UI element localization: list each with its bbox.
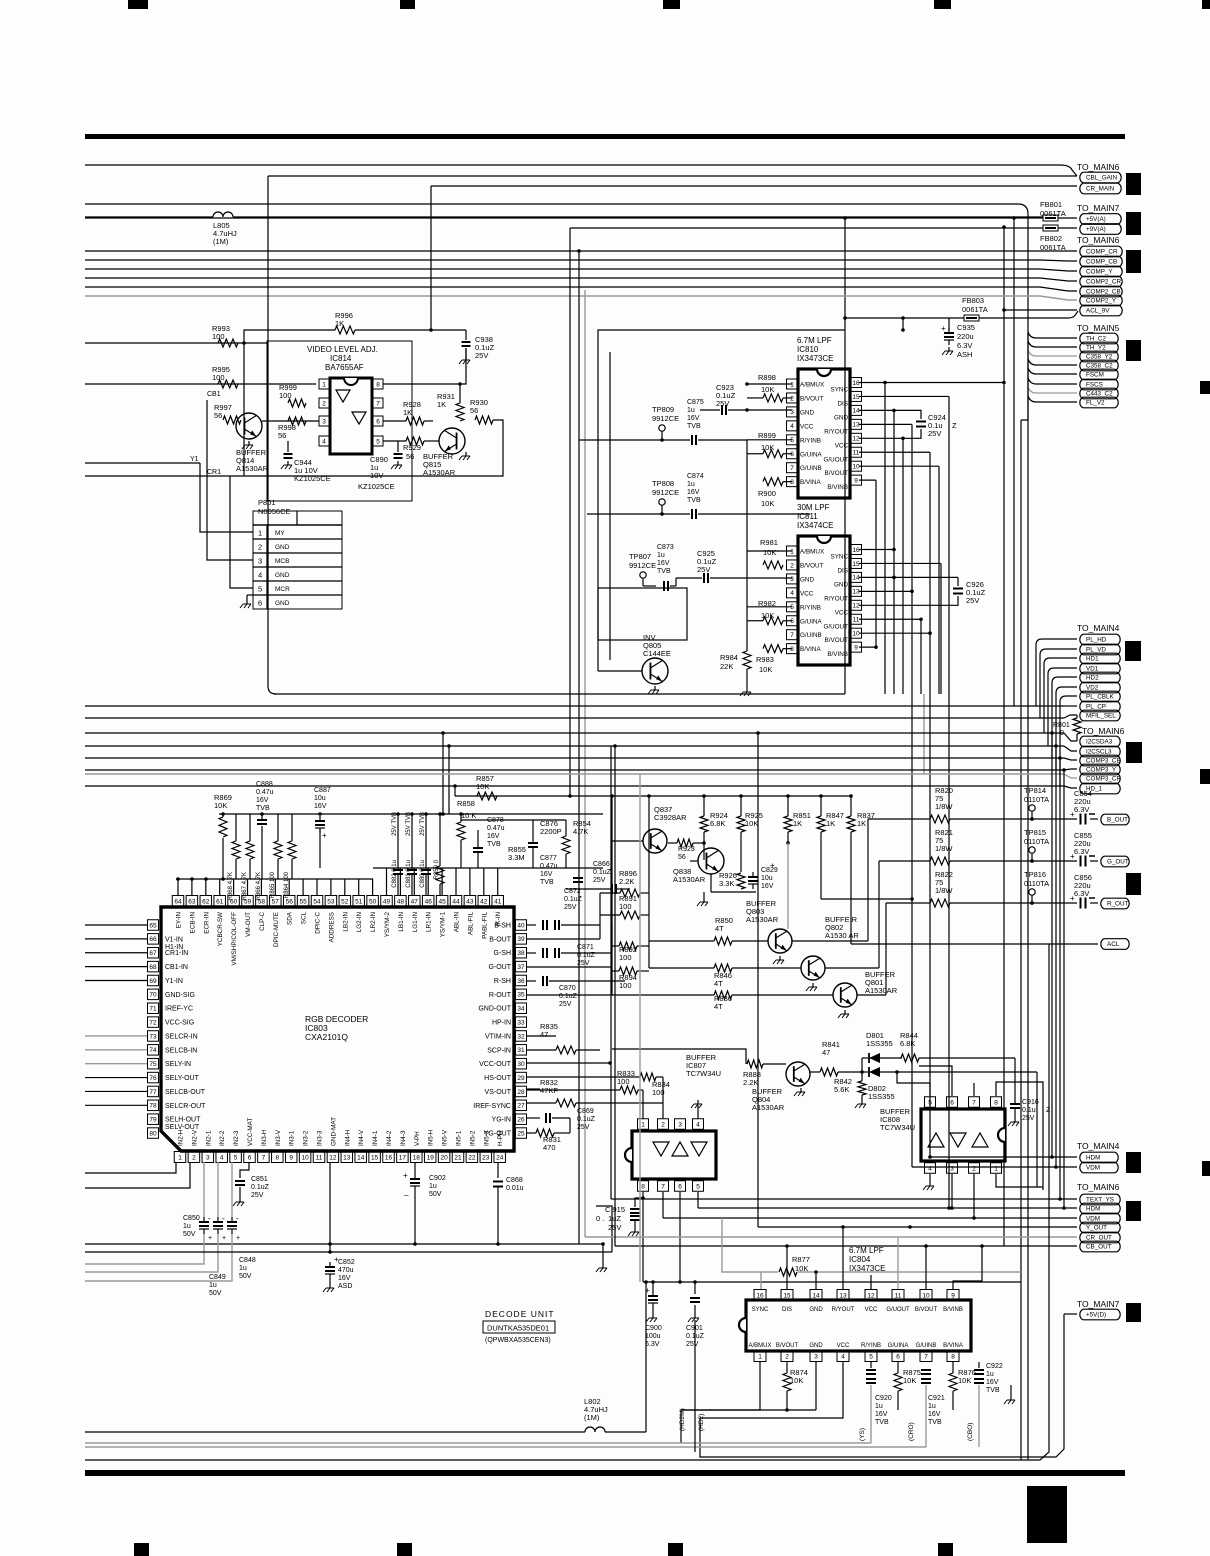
- wire IC807 pin1 riser: [642, 1090, 644, 1119]
- connector +5V(A): [1080, 214, 1121, 225]
- svg-text:GND: GND: [834, 414, 848, 421]
- svg-text:TO_MAIN6: TO_MAIN6: [1082, 726, 1125, 736]
- svg-text:R/YINB: R/YINB: [800, 437, 821, 444]
- pin 39 IC803: [516, 934, 527, 945]
- capacitor C920: [870, 1362, 872, 1368]
- pin 4 IC803: [216, 1152, 228, 1163]
- wire IC810 pin14 net: [859, 409, 894, 411]
- ferrite bead FB802: [1043, 225, 1058, 231]
- svg-text:76: 76: [149, 1075, 157, 1082]
- pin 13 IC811: [851, 586, 862, 596]
- ground IC804 area: [1010, 1385, 1012, 1396]
- svg-text:V1-IN: V1-IN: [165, 936, 183, 943]
- svg-text:6.3V: 6.3V: [645, 1341, 660, 1348]
- svg-text:LB2-IN: LB2-IN: [342, 912, 349, 932]
- wire IC808 pin1 riser: [996, 1174, 1043, 1187]
- wire vertical x939: [938, 466, 940, 694]
- svg-text:VIDEO LEVEL ADJ.: VIDEO LEVEL ADJ.: [307, 345, 378, 354]
- wire IC803 top pin stub: [288, 879, 290, 895]
- svg-text:9912CE: 9912CE: [629, 561, 656, 570]
- svg-text:8: 8: [790, 479, 794, 486]
- svg-text:C3928AR: C3928AR: [654, 813, 687, 822]
- black mark: [1126, 212, 1141, 235]
- svg-text:15: 15: [371, 1154, 379, 1161]
- wire TO_MAIN5 feeder: [1021, 332, 1028, 420]
- wire IC803 upper rail2: [373, 867, 603, 869]
- svg-text:1K: 1K: [857, 819, 866, 828]
- svg-text:IN2-3: IN2-3: [233, 1130, 240, 1146]
- svg-text:47: 47: [822, 1048, 830, 1057]
- svg-text:SELY-IN: SELY-IN: [165, 1061, 191, 1068]
- pin 8 IC811: [787, 644, 798, 654]
- pin 42 IC803: [478, 896, 490, 907]
- svg-text:6.8K: 6.8K: [900, 1039, 915, 1048]
- svg-text:TO_MAIN4: TO_MAIN4: [1077, 1141, 1120, 1151]
- wire IC810 pin15 net: [859, 395, 949, 397]
- pin 74 IC803: [148, 1045, 159, 1056]
- wire Q805 route box: [597, 352, 599, 671]
- svg-text:4T: 4T: [714, 1002, 723, 1011]
- pin 48 IC803: [395, 896, 407, 907]
- wire IC808 pin3 riser: [951, 1174, 953, 1208]
- svg-text:IC804: IC804: [849, 1255, 871, 1264]
- svg-text:(1M): (1M): [213, 237, 229, 246]
- svg-text:C870: C870: [559, 985, 576, 992]
- connector TEXT_YS: [1080, 1194, 1120, 1205]
- svg-text:TP814: TP814: [1024, 786, 1046, 795]
- wire vertical x894: [893, 410, 895, 694]
- wire vertical x876: [859, 480, 876, 647]
- wire VCC-OUT: [527, 1062, 610, 1064]
- svg-text:+: +: [1070, 894, 1075, 903]
- black mark: [1126, 1201, 1141, 1221]
- connector I2CSDA3: [1080, 736, 1120, 747]
- wire middle band: [85, 757, 1064, 759]
- pin 14 IC804: [810, 1290, 822, 1301]
- svg-text:TP809: TP809: [652, 405, 674, 414]
- pin 79 IC803: [148, 1114, 159, 1125]
- svg-text:3.3K: 3.3K: [719, 879, 734, 888]
- connector ACL_9V: [1080, 305, 1122, 316]
- svg-text:100: 100: [619, 902, 632, 911]
- wire IC803 top pin stub: [386, 868, 388, 895]
- svg-text:IC810: IC810: [797, 345, 819, 354]
- svg-text:1K: 1K: [437, 400, 446, 409]
- svg-text:8: 8: [275, 1154, 279, 1161]
- svg-text:17: 17: [399, 1154, 407, 1161]
- wire TO_MAIN5 stub: [1028, 332, 1077, 338]
- svg-text:C850: C850: [183, 1215, 200, 1222]
- pin 22 IC803: [466, 1152, 478, 1163]
- svg-text:G-SH: G-SH: [494, 950, 512, 957]
- pin 16 IC803: [383, 1152, 395, 1163]
- wire IC803 top pin stub: [344, 879, 346, 895]
- wire vertical x885: [884, 383, 886, 695]
- wire G-OUT: [527, 966, 612, 968]
- svg-text:IN3-H: IN3-H: [261, 1129, 268, 1146]
- pin 30 IC803: [516, 1058, 527, 1069]
- svg-text:CR1-IN: CR1-IN: [165, 950, 188, 957]
- connector PL_HD: [1080, 634, 1120, 645]
- svg-text:C829: C829: [761, 867, 778, 874]
- svg-text:C887: C887: [314, 787, 331, 794]
- pin 59 IC803: [242, 896, 254, 907]
- svg-text:SYNC: SYNC: [831, 387, 849, 394]
- svg-text:A1530AR: A1530AR: [236, 464, 269, 473]
- black mark: [1126, 873, 1141, 895]
- svg-text:1u: 1u: [429, 1183, 437, 1190]
- svg-text:R984: R984: [720, 653, 738, 662]
- svg-text:BA7655AF: BA7655AF: [325, 363, 364, 372]
- svg-text:10K: 10K: [761, 385, 774, 394]
- pin 13 IC804: [837, 1290, 849, 1301]
- svg-text:1u: 1u: [928, 1403, 936, 1410]
- svg-text:-: -: [236, 1214, 239, 1223]
- svg-text:VCC: VCC: [865, 1307, 878, 1313]
- wire TO_MAIN5 stub: [1028, 368, 1077, 374]
- wire R847 to vertical: [821, 898, 912, 900]
- svg-text:DPIC-C: DPIC-C: [315, 912, 322, 934]
- black mark: [1126, 250, 1141, 273]
- wire IC803 pin2 out: [85, 1162, 190, 1188]
- svg-text:SELCB-OUT: SELCB-OUT: [165, 1089, 206, 1096]
- svg-text:B/VOUT: B/VOUT: [915, 1307, 938, 1313]
- wire P801 pin5: [230, 476, 253, 588]
- wire CBO bottom link: [978, 1443, 980, 1447]
- svg-text:7: 7: [661, 1183, 665, 1190]
- wire vertical x244: [243, 343, 245, 476]
- wire middle band: [85, 705, 1064, 707]
- pin 27 IC803: [516, 1100, 527, 1111]
- svg-text:V-PH: V-PH: [414, 1131, 421, 1146]
- svg-text:TP808: TP808: [652, 479, 674, 488]
- pin 10 IC804: [920, 1290, 932, 1301]
- connector C358_C2: [1080, 360, 1118, 371]
- svg-text:+: +: [1070, 810, 1075, 819]
- svg-text:8: 8: [951, 1353, 955, 1360]
- pin 57 IC803: [270, 896, 282, 907]
- svg-text:CXA2101Q: CXA2101Q: [305, 1032, 348, 1042]
- svg-text:C849: C849: [209, 1274, 226, 1281]
- svg-text:IN2-1: IN2-1: [205, 1130, 212, 1146]
- wire long vertical x1056: [1055, 746, 1057, 1167]
- svg-text:19: 19: [427, 1154, 435, 1161]
- svg-text:5: 5: [790, 437, 794, 444]
- resistor R846 zigzag: [649, 967, 714, 969]
- svg-text:MFIL_SEL: MFIL_SEL: [1086, 713, 1116, 720]
- svg-text:LG2-IN: LG2-IN: [356, 912, 363, 933]
- wire IC803 top pin stub: [427, 868, 429, 895]
- IC807 triangle 1: [653, 1142, 669, 1156]
- svg-text:0110TA: 0110TA: [1024, 795, 1049, 804]
- pin 18 IC803: [411, 1152, 423, 1163]
- pin 6 IC814: [373, 416, 383, 426]
- svg-text:0.1u: 0.1u: [1022, 1107, 1036, 1114]
- svg-text:25V: 25V: [1022, 1115, 1035, 1122]
- svg-text:DIS: DIS: [838, 567, 849, 574]
- pin 69 IC803: [148, 975, 159, 986]
- wire R996 net: [244, 330, 335, 343]
- wire LPF frame bottom: [598, 693, 845, 695]
- wire IC803 left pin input: [85, 924, 147, 926]
- svg-text:3: 3: [678, 1121, 682, 1128]
- svg-text:16V: 16V: [314, 803, 327, 810]
- svg-text:R981: R981: [760, 538, 778, 547]
- connector VD1: [1080, 663, 1120, 674]
- capacitor C850 unit: [199, 1221, 209, 1223]
- svg-text:6: 6: [678, 1183, 682, 1190]
- svg-text:SELCR-OUT: SELCR-OUT: [165, 1103, 206, 1110]
- connector COMP2_CB: [1080, 286, 1122, 297]
- pin 8 IC814: [373, 379, 383, 389]
- svg-text:53: 53: [327, 898, 335, 905]
- svg-text:C871: C871: [577, 944, 594, 951]
- wire Q801 output riser: [857, 994, 886, 996]
- svg-text:GND: GND: [275, 544, 290, 551]
- svg-text:IN2-H: IN2-H: [178, 1129, 185, 1146]
- svg-text:25V: 25V: [577, 960, 590, 967]
- wire vertical x845: [844, 218, 846, 694]
- wire IC804 pin15 up: [786, 1246, 788, 1289]
- svg-text:6.8K: 6.8K: [710, 819, 725, 828]
- svg-text:2: 2: [661, 1121, 665, 1128]
- svg-text:5: 5: [258, 585, 262, 594]
- pin 11 IC803: [313, 1152, 325, 1163]
- svg-text:12: 12: [852, 436, 860, 443]
- wire Q815 collector: [343, 420, 503, 476]
- svg-text:B/VOUT: B/VOUT: [825, 637, 849, 644]
- svg-text:61: 61: [216, 898, 224, 905]
- svg-text:MCR: MCR: [275, 586, 290, 593]
- pin 5 IC804: [865, 1351, 877, 1362]
- svg-text:3: 3: [814, 1353, 818, 1360]
- black mark: [1126, 742, 1142, 763]
- svg-text:IN5-2: IN5-2: [469, 1130, 476, 1146]
- svg-text:0.1uZ: 0.1uZ: [564, 896, 583, 903]
- pin 10 IC803: [299, 1152, 311, 1163]
- svg-text:VTIM-IN: VTIM-IN: [485, 1033, 511, 1040]
- wire vertical x579: [578, 251, 580, 1244]
- svg-text:+9V(A): +9V(A): [1086, 226, 1106, 233]
- svg-text:10K: 10K: [745, 819, 758, 828]
- wire CR_MAIN net: [431, 185, 1077, 187]
- svg-text:G/UINB: G/UINB: [800, 632, 822, 639]
- svg-text:1u: 1u: [209, 1282, 217, 1289]
- svg-text:1u: 1u: [875, 1403, 883, 1410]
- svg-text:1u: 1u: [239, 1265, 247, 1272]
- wire drop x611: [611, 796, 613, 841]
- svg-text:8: 8: [994, 1099, 998, 1106]
- svg-text:31: 31: [517, 1047, 525, 1054]
- svg-text:EY-IN: EY-IN: [176, 912, 183, 929]
- svg-text:5: 5: [234, 1154, 238, 1161]
- ground R984: [746, 688, 748, 692]
- wire bottom y1432: [85, 1431, 585, 1433]
- svg-text:_: _: [403, 1187, 409, 1196]
- svg-text:9: 9: [289, 1154, 293, 1161]
- svg-text:34: 34: [517, 1006, 525, 1013]
- wire IC803 top pin stub: [372, 879, 374, 895]
- wire input y384: [85, 383, 316, 385]
- svg-text:8: 8: [641, 1183, 645, 1190]
- svg-text:67: 67: [149, 950, 157, 957]
- pin 80 IC803: [148, 1128, 159, 1139]
- wire IC810 pin9 net: [859, 479, 876, 481]
- wire bottom y1457: [700, 1314, 1064, 1457]
- svg-text:25V: 25V: [697, 565, 710, 574]
- svg-text:16V: 16V: [986, 1379, 999, 1386]
- wire IC810 pin16 net: [859, 382, 1004, 384]
- svg-text:VCC: VCC: [835, 609, 849, 616]
- svg-text:COMP2_CR: COMP2_CR: [1086, 279, 1121, 286]
- black mark: [1126, 1152, 1141, 1173]
- svg-text:1: 1: [994, 1165, 998, 1172]
- wire middle band: [85, 769, 1064, 771]
- svg-text:B/VINA: B/VINA: [943, 1343, 963, 1349]
- wire IC808 pin5 riser: [897, 1072, 930, 1096]
- svg-text:0061TA: 0061TA: [1040, 209, 1066, 218]
- pin 12 IC804: [865, 1290, 877, 1301]
- svg-text:4: 4: [258, 571, 262, 580]
- svg-text:6.3V: 6.3V: [1074, 805, 1089, 814]
- svg-text:72: 72: [149, 1019, 157, 1026]
- svg-text:10u: 10u: [314, 795, 326, 802]
- IC808 triangle 2: [950, 1133, 966, 1147]
- pin 6 IC808: [947, 1097, 958, 1108]
- svg-text:C922: C922: [986, 1363, 1003, 1370]
- capacitor C944: [287, 441, 289, 452]
- svg-text:10: 10: [922, 1292, 930, 1299]
- svg-text:13: 13: [839, 1292, 847, 1299]
- svg-text:46: 46: [425, 898, 433, 905]
- wire input y463 Y1: [85, 462, 200, 464]
- svg-text:C144EE: C144EE: [643, 649, 671, 658]
- svg-text:IN4-1: IN4-1: [372, 1130, 379, 1146]
- capacitor C922: [974, 1369, 984, 1371]
- IC IC808 body: [921, 1109, 1005, 1161]
- wire bus y204: [85, 204, 1028, 1460]
- svg-text:13: 13: [852, 422, 860, 429]
- svg-text:42: 42: [480, 898, 488, 905]
- svg-text:G/UINB: G/UINB: [916, 1343, 937, 1349]
- svg-text:ACL_9V: ACL_9V: [1086, 308, 1110, 315]
- pin 19 IC803: [424, 1152, 436, 1163]
- wire IC804 pin14 up: [815, 1272, 817, 1289]
- svg-text:CR1: CR1: [207, 469, 221, 476]
- pin 3 IC804: [810, 1351, 822, 1362]
- svg-text:25V TVB: 25V TVB: [406, 812, 412, 836]
- svg-text:65: 65: [149, 922, 157, 929]
- svg-text:B/VOUT: B/VOUT: [776, 1343, 799, 1349]
- svg-text:7: 7: [262, 1154, 266, 1161]
- svg-text:2: 2: [322, 400, 326, 407]
- wire COMP_CB net: [85, 260, 1077, 261]
- svg-text:6.7M LPF: 6.7M LPF: [849, 1246, 884, 1255]
- svg-text:56: 56: [214, 411, 222, 420]
- wire gray pin5 column: [231, 1162, 233, 1217]
- wire drop x649: [648, 796, 650, 968]
- wire IC808 pin6 riser: [919, 1066, 952, 1096]
- svg-text:ECR-IN: ECR-IN: [203, 912, 210, 934]
- connector HD2: [1080, 672, 1120, 683]
- wire IC804 pin11 up: [897, 1237, 899, 1289]
- svg-text:56: 56: [470, 406, 478, 415]
- wire TO_MAIN5 stub: [1028, 350, 1077, 356]
- svg-text:10: 10: [852, 631, 860, 638]
- svg-text:3: 3: [950, 1165, 954, 1172]
- svg-text:ECB-IN: ECB-IN: [189, 912, 196, 934]
- svg-text:HD1: HD1: [1086, 656, 1099, 663]
- svg-text:14: 14: [357, 1154, 365, 1161]
- svg-text:HP-IN: HP-IN: [492, 1020, 511, 1027]
- svg-text:GND: GND: [809, 1343, 823, 1349]
- svg-text:0.47u: 0.47u: [256, 789, 274, 796]
- svg-text:2: 2: [258, 543, 262, 552]
- pin 38 IC803: [516, 947, 527, 958]
- wire IC803 left pin input: [85, 1035, 147, 1037]
- svg-text:1u: 1u: [183, 1223, 191, 1230]
- wire IC803 top pin stub: [497, 868, 499, 895]
- wire IC803 top pin stub: [399, 868, 401, 895]
- svg-text:DPIC-MUTE: DPIC-MUTE: [273, 912, 280, 947]
- svg-text:C872: C872: [564, 888, 581, 895]
- pin 4 IC808: [925, 1163, 936, 1174]
- svg-text:B/VOUT: B/VOUT: [800, 562, 824, 569]
- pin 15 IC804: [781, 1290, 793, 1301]
- svg-text:15: 15: [783, 1292, 791, 1299]
- svg-text:16V: 16V: [657, 560, 670, 567]
- black mark: [1126, 173, 1141, 195]
- pin 7 IC814: [373, 398, 383, 408]
- wire ACL net: [851, 943, 1098, 945]
- svg-text:30M LPF: 30M LPF: [797, 503, 830, 512]
- wire vertical x941: [940, 563, 942, 694]
- svg-text:B/VINB: B/VINB: [827, 651, 848, 658]
- svg-text:13: 13: [343, 1154, 351, 1161]
- transistor Q815: [439, 428, 465, 454]
- svg-text:A1530AR: A1530AR: [673, 875, 706, 884]
- bottom rule: [85, 1470, 1125, 1476]
- wire IC803 top pin stub: [316, 879, 318, 895]
- pin 35 IC803: [516, 989, 527, 1000]
- wire IC807 pin8 column: [642, 1192, 644, 1282]
- svg-text:56: 56: [278, 431, 286, 440]
- svg-text:ASH: ASH: [957, 350, 972, 359]
- wire pin12 column: [329, 1162, 331, 1252]
- connector HD_1: [1080, 783, 1120, 794]
- svg-text:VCC-MAT: VCC-MAT: [247, 1118, 254, 1146]
- svg-text:VCC-SIG: VCC-SIG: [165, 1020, 194, 1027]
- svg-text:B/VINA: B/VINA: [800, 646, 821, 653]
- svg-text:R867 4.7K: R867 4.7K: [242, 872, 248, 900]
- pin 1 IC810: [787, 379, 798, 389]
- svg-text:TP815: TP815: [1024, 828, 1046, 837]
- wire IC803 left pin input: [85, 1063, 147, 1065]
- svg-text:ACL: ACL: [1107, 941, 1120, 948]
- svg-text:48: 48: [397, 898, 405, 905]
- svg-text:470: 470: [543, 1143, 556, 1152]
- svg-text:R983: R983: [756, 655, 774, 664]
- pin 11 IC804: [892, 1290, 904, 1301]
- wire IC803 top pin stub: [205, 879, 207, 895]
- svg-text:A/BMUX: A/BMUX: [800, 382, 825, 389]
- svg-text:SELCR-IN: SELCR-IN: [165, 1033, 198, 1040]
- wire drop x611b: [610, 746, 612, 1199]
- svg-text:A1530AR: A1530AR: [746, 915, 779, 924]
- svg-text:TP807: TP807: [629, 552, 651, 561]
- wire TO_MAIN5 stub: [1028, 378, 1077, 384]
- pin 34 IC803: [516, 1003, 527, 1014]
